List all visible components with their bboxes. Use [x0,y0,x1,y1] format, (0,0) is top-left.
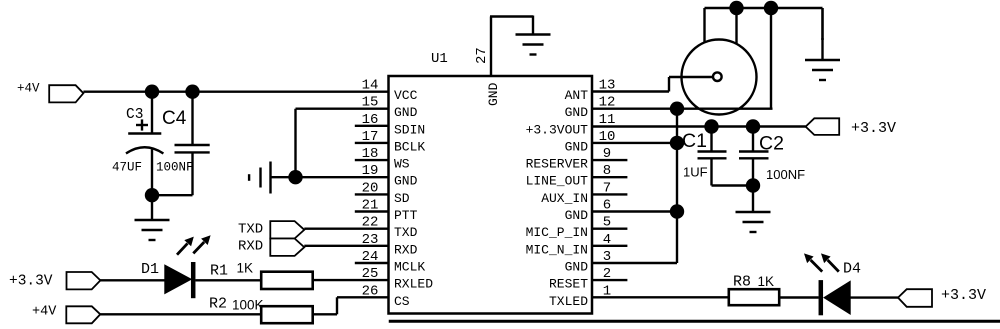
svg-text:GND: GND [565,105,589,120]
wire +3.3VOUT pin 11 [592,125,806,127]
C1 top plate [698,150,727,152]
svg-text:21: 21 [362,198,379,214]
ground (top right) [805,59,840,61]
C3 plus polarity mark [136,124,148,126]
svg-text:GND: GND [565,139,589,154]
LED D1 arrow 2 [193,242,204,253]
svg-text:RXD: RXD [394,242,418,257]
wire R2 right [313,313,337,315]
antenna body circle [682,40,757,115]
svg-text:+3.3V: +3.3V [9,274,53,290]
svg-text:VCC: VCC [394,88,418,103]
wire pin 6 GND [592,210,677,212]
svg-text:PTT: PTT [394,208,418,223]
svg-text:1K: 1K [237,261,254,276]
svg-text:RESERVER: RESERVER [526,157,589,172]
node junction at C4 [185,85,199,99]
pin 16 stub [355,125,389,127]
node junction top 1 [729,1,743,15]
svg-text:4: 4 [603,232,611,248]
wire drop to ground right [821,8,824,40]
svg-text:R1: R1 [210,263,228,280]
+3.3V connector tag (bottom right) [898,289,932,307]
node junction top 2 [764,1,778,15]
svg-text:7: 7 [603,180,611,196]
LED D4 arrow 1 [811,260,823,272]
pin 8 stub [592,176,627,178]
pin 20 stub [355,193,389,195]
C1 bottom plate [698,157,727,159]
wire R1 to pin 25 [313,279,389,281]
node junction GND net [288,170,302,184]
svg-text:TXLED: TXLED [549,294,588,309]
pin 21 stub [355,210,389,212]
C3 bottom wire [151,150,153,196]
svg-text:100K: 100K [232,298,264,313]
svg-text:100NF: 100NF [766,167,805,182]
svg-text:RESET: RESET [549,277,588,292]
C1 bottom wire [710,158,712,185]
C2 top plate [739,150,769,152]
ground (below C2) [736,211,771,213]
wire +4V to VCC pin 14 [83,90,388,92]
ground (left, rotated) [269,162,271,194]
wire TXD to pin 22 [304,227,388,229]
wire RXD to pin 23 [304,245,388,247]
LED D1 triangle [165,265,191,293]
svg-text:+3.3VOUT: +3.3VOUT [526,122,589,137]
pin 24 stub [355,262,389,264]
antenna feed point [713,72,722,81]
svg-text:TXD: TXD [238,222,263,238]
wire pin 15 GND vertical [294,109,296,178]
wire ANT riser [668,77,670,92]
LED D4 cathode bar [819,280,824,315]
svg-text:1UF: 1UF [683,165,708,180]
+3.3V connector tag (right) [806,118,840,135]
RXD connector tag [270,239,304,256]
svg-text:9: 9 [603,146,611,162]
svg-text:100NF: 100NF [156,161,194,175]
LED D4 triangle [824,281,850,314]
sheet border line [389,320,1000,323]
svg-text:24: 24 [362,249,379,265]
C2 bottom plate [739,157,769,159]
wire jog up to pin 26 [336,297,338,314]
C2 top wire [752,127,754,152]
pin 7 stub [592,193,627,195]
node junction C2 top [746,119,760,133]
wire to ground C2 [752,186,754,213]
svg-text:RXD: RXD [238,239,263,255]
svg-text:5: 5 [603,215,611,231]
svg-text:GND: GND [565,260,589,275]
wire pin 15 GND horizontal [296,107,389,109]
C3 top wire [151,92,153,134]
svg-text:2: 2 [603,266,611,282]
svg-text:LINE_OUT: LINE_OUT [526,174,589,189]
wire drop left into antenna [703,8,705,43]
wire +4V to R2 [100,313,261,315]
resistor R8 body [729,289,779,305]
antenna feed wire [669,76,714,78]
+4V connector tag [49,85,83,102]
svg-text:GND: GND [394,174,418,189]
wire D4 to +3.3V tag [850,296,898,298]
C1 bottom horizontal [712,184,754,186]
svg-text:+4V: +4V [17,82,40,96]
svg-text:GND: GND [486,82,501,106]
pin 4 stub [592,245,627,247]
svg-text:16: 16 [362,112,379,128]
wire pin 3 GND [592,262,677,264]
wire to ground [151,195,153,220]
svg-text:+4V: +4V [32,305,57,320]
wire drop mid into antenna [735,8,737,45]
pin 18 stub [355,159,389,161]
svg-text:ANT: ANT [565,88,589,103]
op-amp U1 IC body [389,76,593,314]
svg-text:SD: SD [394,191,410,206]
wire down to ground [532,16,534,35]
ground (below C3 C4) [135,219,170,221]
wire +3.3V to D1 [100,279,164,281]
svg-text:MIC_N_IN: MIC_N_IN [526,242,588,257]
wire drop right to GND pin12 net [770,8,772,109]
svg-text:D4: D4 [843,261,861,278]
svg-text:C1: C1 [682,130,707,152]
wire D1 to R1 [196,279,262,281]
node junction pin10/bus [670,136,684,150]
svg-text:8: 8 [603,163,611,179]
C4 top wire [191,92,193,145]
svg-text:17: 17 [362,129,379,145]
svg-text:+3.3V: +3.3V [851,120,896,137]
C4 bottom wire [191,152,193,195]
svg-text:CS: CS [394,294,410,309]
svg-text:C4: C4 [162,108,187,129]
svg-text:U1: U1 [431,51,448,67]
+4V connector tag (bottom) [66,306,100,323]
svg-text:20: 20 [362,180,379,196]
svg-text:AUX_IN: AUX_IN [541,191,588,206]
pin 17 stub [355,142,389,144]
wire pin 19 GND [271,176,389,178]
svg-text:GND: GND [565,208,589,223]
node junction C1 top [704,119,718,133]
node junction C3/C4 ground [145,188,159,202]
node junction at C3 [145,85,159,99]
C4 bottom wire horizontal [152,194,193,196]
pin 27 wire vertical [490,17,492,77]
pin 2 stub [592,279,627,281]
TXD connector tag [270,221,304,238]
wire antenna top [705,7,823,10]
svg-text:1K: 1K [758,274,775,289]
svg-text:27: 27 [474,47,490,64]
LED D1 cathode bar [191,262,196,298]
svg-text:BCLK: BCLK [394,139,425,154]
C3 curved bottom plate [126,147,163,153]
svg-text:18: 18 [362,146,379,162]
pin 27 wire horizontal [490,15,533,17]
svg-text:MIC_P_IN: MIC_P_IN [526,225,588,240]
svg-text:MCLK: MCLK [394,260,425,275]
C3 top plate [128,132,161,134]
+3.3V connector tag (left) [67,272,101,289]
svg-text:D1: D1 [141,261,159,278]
svg-text:GND: GND [394,105,418,120]
svg-text:47UF: 47UF [112,161,142,175]
svg-text:WS: WS [394,157,410,172]
wire ANT pin 13 horizontal [592,90,669,92]
C4 top plate [175,144,210,146]
svg-text:TXD: TXD [394,225,418,240]
svg-text:+3.3V: +3.3V [941,287,986,304]
svg-text:C3: C3 [126,107,143,123]
wire TXLED pin 1 to R8 [592,296,729,298]
wire R8 to D4 [779,296,818,298]
resistor R1 body [261,272,313,289]
node junction C1/C2 bottom [746,178,760,192]
LED D4 arrow 2 [828,260,839,272]
GND bus vertical [676,109,678,263]
resistor R2 body [261,306,313,323]
svg-text:RXLED: RXLED [394,277,433,292]
wire pin 12 GND [592,107,773,109]
node junction pin12/bus [670,102,684,116]
C2 bottom wire [752,158,754,185]
C4 bottom plate [175,151,210,153]
pin 9 stub [592,159,627,161]
svg-text:R2: R2 [209,296,227,313]
LED D1 arrow 1 [177,243,188,254]
wire pin 10 GND [592,142,677,144]
C1 top wire [710,127,712,152]
svg-text:SDIN: SDIN [394,122,425,137]
wire to pin 26 CS [337,296,389,298]
ground (top center) [516,33,551,35]
node junction pin6/bus [670,204,684,218]
pin 5 stub [592,227,627,229]
